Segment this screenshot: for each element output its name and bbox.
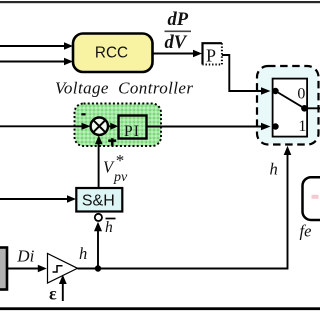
svg-text:1: 1 xyxy=(298,118,306,135)
node: wiper output xyxy=(301,105,308,112)
svg-text:fe: fe xyxy=(300,222,312,241)
label dP/dV xyxy=(165,10,192,53)
svg-text:RCC: RCC xyxy=(95,45,128,62)
switch wiper xyxy=(276,91,305,108)
top frame border xyxy=(0,1,320,3)
node: input 0 xyxy=(272,88,278,94)
svg-text:0: 0 xyxy=(297,85,305,102)
switch body xyxy=(273,79,308,137)
svg-text:Di: Di xyxy=(16,246,34,265)
wire: RCC to P xyxy=(153,50,202,58)
relay comparator triangle xyxy=(48,254,78,284)
block PI xyxy=(119,116,147,140)
wire: input to summing junction xyxy=(0,123,91,130)
label Vpv* xyxy=(103,151,128,185)
wire: epsilon arrow into relay xyxy=(59,275,67,301)
svg-text:h: h xyxy=(79,244,87,263)
node: h junction xyxy=(95,265,101,271)
wire: gray block to relay xyxy=(7,265,47,273)
svg-text:dV: dV xyxy=(165,33,188,53)
switch dashed container xyxy=(257,66,319,145)
svg-text:pv: pv xyxy=(113,170,128,185)
node: input 1 xyxy=(272,123,278,129)
svg-text:ε: ε xyxy=(49,284,57,304)
block RCC xyxy=(73,34,153,73)
svg-text:dP: dP xyxy=(168,10,189,30)
minus sign xyxy=(81,113,85,115)
wire: switch output xyxy=(304,107,320,109)
svg-text:h: h xyxy=(270,160,278,179)
voltage controller dashed green box xyxy=(75,104,162,147)
wire: S&H up to summing junction xyxy=(95,135,103,188)
wire: input 1 to RCC xyxy=(0,42,73,50)
block PV array (gray, cropped) xyxy=(0,248,7,290)
svg-text:h: h xyxy=(105,219,113,236)
svg-text:I: I xyxy=(134,123,139,140)
block S&H xyxy=(76,188,122,212)
svg-text:P: P xyxy=(206,46,216,66)
svg-text:S&H: S&H xyxy=(82,193,115,210)
wire: input to S&H xyxy=(0,195,76,203)
wire: h line from relay to switch select xyxy=(78,146,292,269)
summing junction xyxy=(91,118,108,135)
block P xyxy=(203,43,222,65)
wire: input 2 to RCC xyxy=(0,58,73,66)
wire: PI to switch input 1 xyxy=(147,123,271,131)
wire: junction up to bubble xyxy=(94,222,102,269)
bottom frame border xyxy=(0,307,320,310)
plus sign xyxy=(108,138,116,145)
block feedback (cropped right) xyxy=(303,177,320,220)
inverter bubble under S&H xyxy=(95,214,102,221)
svg-text:Voltage Controller: Voltage Controller xyxy=(55,79,193,98)
wire: P to switch input 0 xyxy=(222,55,271,95)
svg-text:P: P xyxy=(124,123,133,140)
svg-text:*: * xyxy=(116,151,125,170)
label h-bar xyxy=(105,219,116,237)
wire: summing junction to PI xyxy=(108,123,118,130)
